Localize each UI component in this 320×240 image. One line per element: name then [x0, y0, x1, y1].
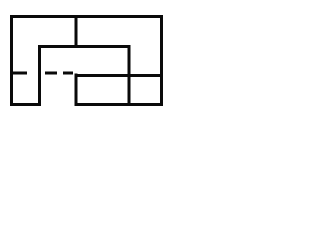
wire bottom-left segment	[10, 103, 41, 106]
wire hidden dashed segment 1	[13, 72, 28, 75]
wire top middle vertical	[75, 15, 78, 48]
wire mid solid horizontal	[75, 74, 164, 77]
wire hidden dashed segment 2	[45, 72, 57, 75]
wire top edge	[10, 15, 163, 18]
wire right edge	[160, 15, 163, 106]
wire bottom-right segment	[75, 103, 164, 106]
wire lower middle vertical	[75, 74, 78, 107]
wire left edge	[10, 15, 13, 106]
wire hidden dashed segment 3	[63, 72, 73, 75]
wire right step vertical	[128, 45, 131, 106]
wire step horizontal	[38, 45, 131, 48]
wire left step vertical	[38, 45, 41, 106]
